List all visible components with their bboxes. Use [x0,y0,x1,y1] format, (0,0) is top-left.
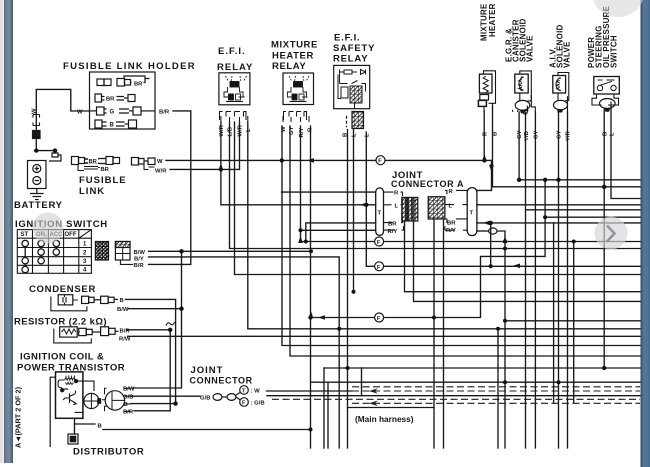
node 503 on F2 [503,240,507,244]
svg-text:B/W: B/W [123,387,135,393]
wire hang 505 [504,242,506,449]
wire EFI relay W/R1 drop [221,122,376,205]
wire right bus 179.8 [519,179,640,181]
svg-text:T: T [378,211,382,217]
nav chevron left [41,224,47,237]
AIV solenoid [553,73,569,113]
svg-text:MIXTURE: MIXTURE [271,40,318,51]
svg-text:CONNECTOR: CONNECTOR [190,376,253,386]
node F4 start [308,315,312,319]
nav circle top right faded [591,0,645,17]
node W/R junction [219,167,223,171]
svg-text:POWER TRANSISTOR: POWER TRANSISTOR [17,363,125,374]
node 558 382 [557,380,561,384]
svg-text:RELAY: RELAY [333,54,368,65]
wire vert 361 [361,368,363,396]
wire W bus from fusible link to joint area [168,159,492,161]
svg-text:B/R: B/R [159,110,170,116]
node L2 joins L pin [364,203,368,207]
svg-text:HEATER: HEATER [488,3,497,37]
wire block corner 291 [405,221,641,292]
wire mystery vertical to 274 bus [235,122,641,275]
EFI relay internals [224,76,247,102]
ignition connector block2 [115,242,133,265]
wire condenser B [126,299,176,403]
mixture heater relay bracket [284,112,307,121]
wire F bus2 [301,241,641,243]
label table headers [21,232,88,274]
wire transistor B [131,403,176,405]
EFI safety relay connector [352,112,364,129]
svg-text:L: L [365,133,371,137]
svg-text:BR: BR [134,82,143,88]
fusible link holder row4 B link [95,120,137,128]
wire EGR GY1 drop [518,112,520,180]
joint connector A left capsule [376,188,384,236]
node 498 on 328 [496,327,500,331]
wire vert 324 pair [323,368,325,448]
svg-text:G/B: G/B [200,396,210,402]
EFI relay box [219,73,250,105]
node battery junction [34,148,38,152]
svg-text:E.F.I.: E.F.I. [218,46,246,57]
svg-text:CONNECTOR A: CONNECTOR A [391,179,464,189]
svg-text:GY: GY [534,130,540,139]
node coil B 310 [309,428,313,432]
EFI safety relay internals [338,70,366,109]
svg-text:OFF: OFF [65,232,77,238]
wire capsule R left [282,191,376,193]
svg-text:VALVE: VALVE [563,41,572,68]
svg-text:DISTRIBUTOR: DISTRIBUTOR [73,447,144,458]
wire capsule BR left [306,223,376,242]
wire block corner 301 [414,221,641,301]
coil windings [58,376,78,392]
node 339 on 328 [337,327,341,331]
svg-text:IGNITION COIL &: IGNITION COIL & [20,352,104,363]
wire EGR GY2 drop [534,112,536,448]
transistor circle B [102,388,131,411]
hop symbol resistor BR [166,322,175,326]
svg-text:B/R: B/R [120,329,131,335]
svg-text:W: W [281,126,287,132]
svg-text:L: L [352,133,358,137]
svg-text:BATTERY: BATTERY [14,200,63,211]
circled T joint DE [240,386,249,395]
svg-text:B: B [120,298,124,304]
fusible link holder row2 BR link [95,94,135,102]
svg-text:W/R: W/R [155,169,167,175]
svg-text:R/W: R/W [119,337,131,343]
node 347 on 368 [346,366,350,370]
wire capsule right RY jog [477,230,489,232]
svg-text:R/Y: R/Y [299,128,305,138]
node 507 382 [503,380,507,384]
svg-text:SWITCH: SWITCH [610,35,619,68]
wire bus 217.2 [545,216,640,218]
svg-text:L: L [610,132,616,136]
junction arrows decorative [219,154,520,320]
wire AIV GY drop [558,112,560,448]
vertical component labels right [480,3,619,68]
joint A RY oval [489,228,497,234]
dashed harness wires [272,387,640,404]
wire hang 573 [573,242,575,404]
svg-text:G: G [110,110,115,116]
condenser [51,295,118,311]
wire fusible link W out [166,159,168,161]
svg-text:(Main harness): (Main harness) [355,414,414,424]
fusible link holder box [90,72,156,129]
label fusible link [79,175,127,197]
svg-text:B: B [493,132,499,136]
wire ignition B/W drop [133,251,182,388]
wire block hang 434 [433,220,435,449]
battery minus terminal [33,177,41,185]
svg-text:R: R [449,189,454,195]
svg-text:R: R [394,191,399,197]
svg-text:R/Y: R/Y [446,228,456,234]
wire bus 368 [324,367,640,369]
wire W/R bus [170,122,240,169]
svg-text:B/Y: B/Y [134,256,144,262]
svg-text:L: L [246,128,252,132]
node 353 on 291 [352,290,356,294]
svg-text:B/W: B/W [134,250,146,256]
node resistor BR [168,328,172,332]
wire ignition B/W [149,250,312,252]
wire coil B bottom [75,419,96,425]
svg-text:Y/R: Y/R [566,130,572,141]
nav circle left faded [33,213,64,244]
svg-text:VALVE: VALVE [526,35,535,62]
battery body [28,161,47,189]
wire main harness label frame [348,407,435,409]
wire BR hang 553 [553,223,555,403]
svg-text:G/B: G/B [123,395,133,401]
svg-text:BR: BR [388,221,397,227]
circled F2 [375,237,384,246]
node 507 on 248 [503,247,507,251]
svg-text:BR: BR [101,167,110,173]
wire capsule R/Y left [301,229,376,231]
svg-text:B/W: B/W [117,307,129,313]
svg-text:JOINT: JOINT [191,365,224,376]
svg-text:RELAY: RELAY [272,61,306,72]
joint connector A right capsule [467,188,477,236]
svg-text:: W: : W [251,389,261,395]
transistor circle A [75,381,101,418]
svg-text:FUSIBLE: FUSIBLE [79,175,127,186]
svg-text:R/Y: R/Y [388,229,398,235]
svg-text:GY: GY [557,130,563,139]
wire mixture relay GY drop [290,126,640,356]
ground [30,189,44,200]
svg-text:RELAY: RELAY [217,62,253,73]
wire capsule right L bus [477,204,640,206]
circled F4 [375,313,384,322]
dashed wire 391 [352,390,640,392]
small wire labels [21,82,616,430]
svg-text:SAFETY: SAFETY [333,43,375,54]
svg-text:B: B [98,424,102,430]
svg-text:RESISTOR (2.2 kΩ): RESISTOR (2.2 kΩ) [14,317,107,328]
right viewer scrollbar [641,0,650,467]
wire battery to fusible link [36,151,55,153]
wire mixture relay R/Y drop joins F bus2 [300,126,302,242]
node BR RY blob [304,240,308,244]
wire solid 395.7 G/B harness [267,395,640,397]
svg-text:T: T [470,211,474,217]
svg-text:W: W [157,159,163,165]
ignition connector block1 [95,242,108,261]
wire BR vert 490 [490,223,492,266]
wire psw B drop [603,111,605,368]
wire mixture heater R drop [483,111,485,160]
wire condenser B/W join [128,308,181,310]
wire safety relay L1 drop [353,130,355,292]
wire right bus 186.8 [493,106,641,187]
node 519 GY [517,178,521,182]
wire transistor G/B [131,395,200,397]
wire coil box left drop [50,377,55,447]
circled F3 [375,262,384,271]
EFI safety relay box [334,65,370,108]
mixture heater relay box [283,73,314,105]
wire block hang 443 [443,220,445,449]
svg-text:: G/B: : G/B [251,401,265,407]
wire mixture relay W drop [282,126,640,346]
svg-text:W: W [32,108,38,114]
node 545 on 179.8 [543,178,547,182]
fusible link holder row3 G link [90,107,156,115]
wire solid W segment [267,390,353,392]
svg-text:FUSIBLE LINK HOLDER: FUSIBLE LINK HOLDER [63,61,196,72]
ignition switch contacts ON [38,240,44,246]
svg-text:B: B [603,132,609,136]
svg-text:ST: ST [21,232,29,238]
svg-text:HEATER: HEATER [272,51,314,62]
wire capsule right BR bus [477,222,640,224]
battery W connector symbols [33,115,40,126]
ignition switch contacts ACC [53,240,59,246]
wire EFI relay L/B drop to bus [230,122,641,249]
nav circle right [595,217,628,250]
power steering oil pressure switch [592,77,619,113]
label backs [88,82,144,172]
ignition switch contacts ST [22,240,60,272]
ignition coil and power transistor box [56,372,83,418]
wire safety relay L2 drop [366,132,640,266]
svg-text:B: B [343,133,349,137]
joint connector DE ovals [213,394,222,401]
svg-text:BR: BR [106,97,115,103]
wire EGR YB drop [525,112,527,448]
fusible link holder row1 connectors [97,76,150,86]
mixture heater component [478,71,495,112]
circled F joint DE [240,398,249,407]
wire bus 209.8 [526,209,641,211]
wire safety relay B drop [347,130,349,449]
ignition switch table [17,230,91,274]
svg-text:Y/B: Y/B [524,131,530,141]
wire psw L 198.5 [611,106,640,199]
joint A right block [428,190,467,230]
wire solid 382 [311,381,641,383]
node BW 181 [179,249,183,253]
wire capsule R riser [477,160,492,190]
svg-text:LINK: LINK [79,186,105,197]
svg-text:BR: BR [89,159,98,165]
svg-text:W: W [77,110,83,116]
fusible link connectors [72,157,156,171]
dashed wire 386.8 [352,386,640,388]
svg-text:R: R [308,127,314,132]
EGR canister solenoid [513,71,536,117]
wire distributor elbow [74,424,76,434]
svg-text:CONDENSER: CONDENSER [29,284,96,295]
svg-text:B: B [110,123,115,129]
EFI relay connector bracket [220,112,247,121]
battery connector at junction [49,153,61,161]
svg-text:L: L [395,204,399,210]
node 558 GY [556,178,560,182]
node 573 on F2 [572,240,576,244]
svg-text:W/R: W/R [238,124,244,136]
node 617 on 368 [602,366,606,370]
wire holder B/R to ignition [149,111,191,265]
wire resistor R/W [128,335,640,337]
wire EFI relay L drop to bus [248,122,640,329]
wire resistor B/R [127,330,170,411]
wire ignition B/Y [149,257,340,448]
node transistor B [173,401,177,405]
wire battery W riser [36,89,89,150]
svg-text:GY: GY [517,130,523,139]
wire AIV YR drop [567,112,569,448]
wire F bus4 staircase [311,180,546,318]
node 507 on 320 [503,319,507,323]
dashed wire 399.3 [272,398,640,400]
power transistor symbol [63,391,76,405]
wire bus 320.8 [505,320,640,322]
nav chevron right [607,226,615,242]
svg-text:BR: BR [447,221,456,227]
node condenser BW [179,307,183,311]
wire coil B bus [103,429,311,431]
mixture heater relay internals [288,76,310,102]
left viewer scrollbar track [0,0,4,463]
distributor connector [68,434,78,444]
resistor 2.2k [54,327,119,343]
joint A left block [384,192,418,230]
svg-text:B/R: B/R [123,409,134,415]
battery plus terminal [33,165,41,173]
left viewer scrollbar thumb [4,0,13,463]
main harness label box partial [350,408,426,424]
wire mixture relay R drop full [310,126,312,448]
svg-text:B/R: B/R [134,263,145,269]
node 434 on F4 [432,316,436,320]
svg-text:A◄(PART 2 OF 2): A◄(PART 2 OF 2) [14,386,23,448]
svg-text:E.F.I.: E.F.I. [334,33,360,44]
svg-text:L/B: L/B [228,127,234,137]
svg-text:B: B [124,402,128,408]
node BW 311 [309,249,313,253]
svg-text:W/R: W/R [219,124,225,136]
node W bus 281 [280,158,284,162]
node 604 psw [602,185,606,189]
svg-text:L: L [449,204,453,210]
dashed wire 403.3 [352,402,640,404]
dashed wire arrowheads [369,388,378,406]
svg-text:GY: GY [289,126,295,135]
svg-text:R: R [483,131,489,136]
node W bus 484 [482,158,486,162]
circled F1 on W bus [376,156,385,165]
wire hang 498 [497,329,499,448]
